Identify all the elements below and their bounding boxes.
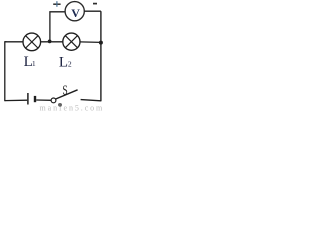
svg-text:manfen5.com: manfen5.com — [40, 104, 105, 113]
battery short plate — [34, 96, 36, 102]
lamp L1 — [23, 33, 41, 51]
svg-text:V: V — [71, 6, 80, 20]
wire top-left horizontal to lamp L1 — [5, 41, 23, 43]
battery cell — [28, 93, 35, 105]
wire right wall vertical — [100, 11, 102, 101]
wire left wall vertical — [4, 41, 6, 101]
svg-text:L: L — [59, 55, 68, 71]
svg-text:2: 2 — [68, 59, 72, 68]
wire bottom left (battery left stub) — [5, 99, 27, 101]
switch S — [51, 90, 78, 103]
wire between L1 and L2 — [41, 41, 63, 43]
corner top-left — [5, 41, 7, 43]
svg-text:1: 1 — [32, 59, 36, 68]
svg-text:S: S — [62, 82, 67, 98]
battery long plate — [27, 93, 29, 105]
wire switch to bottom-right corner — [81, 100, 101, 101]
wire L2 to right wall — [80, 41, 101, 44]
label L2 — [59, 55, 72, 71]
lamp L2 — [63, 33, 80, 50]
label - (voltmeter negative) — [93, 3, 97, 5]
wire battery to switch — [36, 99, 51, 101]
wire voltmeter branch left vertical — [50, 12, 65, 42]
wire voltmeter right to right wall — [84, 10, 101, 12]
node junction dot between lamps — [48, 40, 52, 44]
label L1 — [24, 54, 36, 70]
label + (voltmeter positive) — [53, 1, 60, 7]
op-amp n/a : voltmeter U1 — [65, 2, 84, 21]
node junction dot right wall — [99, 41, 103, 45]
watermark manfen5.com — [40, 103, 105, 113]
